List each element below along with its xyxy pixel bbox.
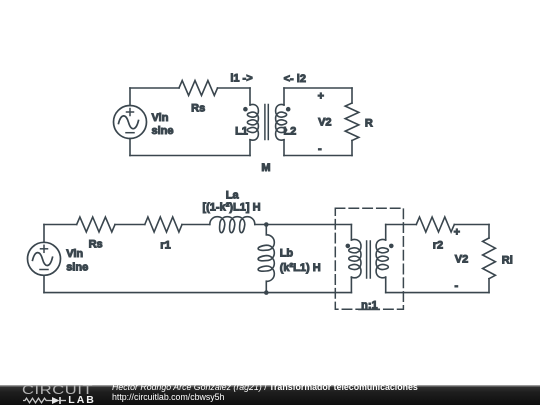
svg-text:Lb: Lb bbox=[280, 248, 294, 260]
svg-text:Rs: Rs bbox=[191, 103, 205, 115]
svg-text:La: La bbox=[226, 190, 240, 202]
svg-text:i1 ->: i1 -> bbox=[230, 73, 252, 85]
svg-text:sine: sine bbox=[152, 125, 174, 137]
svg-text:+: + bbox=[318, 91, 324, 103]
svg-text:Vin: Vin bbox=[152, 112, 169, 124]
svg-text:R: R bbox=[365, 118, 373, 130]
svg-text:r2: r2 bbox=[433, 240, 443, 252]
svg-text:[(1-k²)L1] H: [(1-k²)L1] H bbox=[202, 202, 260, 214]
svg-text:sine: sine bbox=[66, 262, 88, 274]
svg-text:<- i2: <- i2 bbox=[284, 73, 306, 85]
svg-text:Rs: Rs bbox=[89, 239, 103, 251]
svg-text:(k²L1) H: (k²L1) H bbox=[280, 262, 321, 274]
svg-text:+: + bbox=[454, 227, 460, 239]
svg-text:Rl: Rl bbox=[502, 255, 513, 267]
svg-text:r1: r1 bbox=[160, 240, 170, 252]
svg-text:-: - bbox=[318, 143, 322, 155]
svg-text:Vin: Vin bbox=[66, 248, 83, 260]
svg-text:L2: L2 bbox=[283, 126, 296, 138]
svg-text:V2: V2 bbox=[318, 117, 331, 129]
svg-text:M: M bbox=[261, 162, 270, 174]
svg-text:V2: V2 bbox=[455, 253, 468, 265]
svg-text:-: - bbox=[454, 280, 458, 292]
svg-text:L1: L1 bbox=[235, 126, 248, 138]
